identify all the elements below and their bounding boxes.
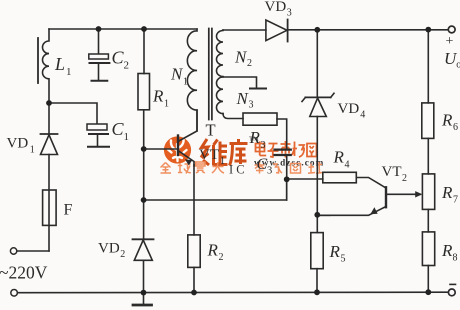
wordmark dianzishichangwang: [256, 141, 317, 158]
wire R3 to C3: [277, 119, 287, 148]
wire node down to VD1: [48, 103, 50, 134]
node R1 top: [141, 26, 147, 32]
svg-text:R: R: [333, 148, 345, 167]
wire R4 to VT2 collector: [356, 178, 386, 189]
svg-text:1: 1: [66, 66, 72, 78]
svg-text:+: +: [446, 34, 454, 49]
wire tap N2/N3: [223, 77, 257, 88]
resistor R6: [422, 103, 434, 138]
svg-text:R: R: [441, 111, 453, 130]
wire R1 branch: [143, 29, 145, 74]
svg-text:L: L: [54, 54, 65, 74]
svg-text:4: 4: [345, 160, 350, 171]
VT2 emitter: [317, 207, 386, 216]
resistor R3: [243, 113, 277, 125]
inductor L1: [42, 29, 49, 103]
wire R8 to rail: [427, 266, 429, 293]
wire top-left rail: [49, 28, 197, 30]
svg-text:3: 3: [261, 140, 266, 151]
wire VD4 branch top: [316, 30, 318, 98]
wire N2 top to VD3: [223, 29, 266, 31]
inductor L1 core bar: [37, 38, 39, 83]
wire R7-R8: [427, 209, 429, 232]
node L1 bottom: [46, 100, 52, 106]
svg-text:R: R: [152, 87, 164, 106]
svg-text:2: 2: [124, 60, 130, 72]
wire VD3 to terminal: [288, 29, 448, 31]
svg-text:3: 3: [249, 100, 254, 111]
svg-text:T: T: [206, 121, 216, 140]
svg-text:o: o: [456, 60, 460, 71]
wire emitter column to R2: [193, 165, 195, 235]
capacitor C3: [275, 150, 291, 155]
wire VD4 to R5: [316, 117, 318, 233]
resistor R5: [311, 233, 323, 269]
tap T-bar: [250, 88, 266, 90]
diode VD3: [266, 20, 288, 42]
capacitor C1: [87, 124, 109, 147]
svg-text:3: 3: [287, 8, 292, 19]
transistor VT2: [385, 187, 387, 207]
node R2 rail: [191, 290, 197, 296]
svg-text:F: F: [64, 202, 73, 219]
svg-text:1: 1: [124, 131, 130, 143]
transformer N2: [217, 30, 224, 77]
svg-text:VT: VT: [199, 147, 219, 163]
svg-text:1: 1: [164, 99, 169, 110]
svg-text:2: 2: [247, 58, 252, 69]
wire R1 to node: [143, 110, 145, 200]
svg-text:R: R: [329, 242, 341, 261]
wire right column: [427, 30, 429, 103]
terminal AC top: [10, 248, 16, 254]
label minus: [449, 283, 456, 285]
svg-text:VD: VD: [7, 136, 29, 152]
svg-text:N: N: [234, 48, 248, 67]
svg-text:R: R: [441, 241, 453, 260]
svg-text:N: N: [236, 89, 250, 108]
capacitor C2: [89, 54, 110, 81]
svg-text:VD: VD: [338, 101, 360, 117]
wire R5 to rail: [316, 269, 318, 293]
wire node to VT2 emitter: [317, 214, 330, 216]
svg-text:4: 4: [360, 109, 365, 120]
svg-text:2: 2: [219, 252, 224, 263]
node VD2 rail: [141, 290, 147, 296]
resistor R4: [323, 172, 357, 183]
wire fuse to terminal: [17, 250, 49, 252]
svg-text:I C: I C: [229, 163, 245, 177]
wire R6-R7: [427, 138, 429, 174]
wire VD2 to rail: [143, 260, 145, 292]
wire feedback bottom: [144, 180, 287, 201]
wire node to C1: [49, 103, 97, 124]
svg-text:2: 2: [120, 249, 125, 260]
watermark: [161, 136, 325, 177]
svg-text:R: R: [249, 128, 261, 147]
wire C3 to node: [286, 155, 288, 200]
zener VD4: [302, 93, 334, 116]
svg-text:7: 7: [453, 195, 458, 206]
wire node to R4: [287, 178, 323, 180]
wire N3 to R3: [223, 114, 243, 119]
wordmark slogan: [161, 162, 323, 174]
node R5 top: [314, 212, 320, 218]
VT2 base to R7 wiper: [386, 191, 422, 197]
svg-text:N: N: [170, 65, 184, 84]
node VD4 top: [314, 27, 320, 33]
terminal Uo: [448, 26, 455, 33]
bottom rail: [18, 291, 448, 294]
svg-text:3: 3: [267, 166, 272, 177]
transformer core: [209, 29, 212, 120]
wire node VD2 top: [143, 200, 145, 239]
resistor R1: [138, 74, 150, 110]
svg-text:6: 6: [453, 122, 458, 133]
logo circle: [164, 136, 191, 163]
ground bar: [143, 293, 145, 304]
resistor R2: [188, 235, 200, 268]
transformer N3: [216, 77, 223, 114]
svg-text:~220V: ~220V: [0, 263, 48, 283]
node C3 bottom: [284, 176, 290, 182]
node VT1 base: [141, 146, 147, 152]
node C2 top: [96, 26, 102, 32]
svg-text:1: 1: [183, 77, 188, 88]
terminal minus: [448, 289, 455, 296]
svg-text:VD: VD: [98, 241, 120, 257]
svg-text:1: 1: [220, 156, 225, 167]
wire base VT1: [144, 148, 178, 150]
wordmark weiku: [201, 139, 248, 166]
svg-text:VD: VD: [265, 0, 287, 15]
capacitor C2 stub: [98, 29, 100, 54]
wire VD1 to fuse: [48, 155, 50, 252]
svg-text:R: R: [441, 183, 453, 202]
diode VD2: [133, 239, 154, 260]
node R6 top: [425, 27, 431, 33]
svg-text:5: 5: [341, 254, 346, 265]
node feedback left: [141, 197, 147, 203]
svg-text:1: 1: [30, 144, 35, 155]
svg-text:C: C: [257, 156, 268, 173]
resistor R8: [422, 232, 434, 266]
transistor VT1: [178, 110, 197, 166]
node R5 rail: [314, 289, 320, 295]
svg-text:VT: VT: [382, 164, 402, 180]
node dots: [46, 26, 431, 295]
svg-text:R: R: [207, 241, 219, 260]
wire R2 to rail: [193, 267, 195, 292]
svg-text:8: 8: [453, 253, 458, 264]
transformer N1: [187, 29, 197, 131]
fuse F: [43, 190, 57, 225]
node R8 rail: [425, 289, 431, 295]
terminal AC bottom: [11, 290, 18, 297]
diode VD1: [41, 134, 58, 155]
svg-text:2: 2: [402, 173, 407, 184]
resistor R7: [422, 174, 434, 210]
